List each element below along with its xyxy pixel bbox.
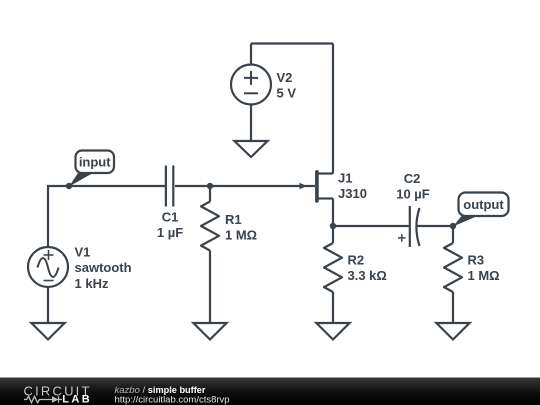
node at J1 source junction: [330, 223, 336, 229]
label C1: [162, 210, 179, 225]
capacitor C2 polarized: [398, 206, 420, 247]
label R1 value 1 Mohm: [225, 228, 257, 243]
net flag output: [453, 193, 509, 227]
ground below R2: [316, 323, 349, 340]
label J1 part J310: [338, 186, 367, 201]
label V2: [277, 70, 293, 85]
node output junction: [450, 223, 456, 229]
wire node to C2: [333, 225, 409, 227]
wire top horizontal to V2: [251, 42, 333, 44]
label C2: [404, 171, 421, 186]
svg-text:1 MΩ: 1 MΩ: [225, 228, 257, 243]
svg-text:C2: C2: [404, 171, 421, 186]
svg-text:LAB: LAB: [62, 394, 92, 405]
svg-text:J1: J1: [338, 171, 352, 186]
svg-text:1 MΩ: 1 MΩ: [468, 268, 500, 283]
resistor R3: [444, 226, 462, 323]
label R2: [348, 253, 365, 268]
svg-text:C1: C1: [162, 210, 179, 225]
transistor J1 JFET: [300, 172, 334, 201]
svg-text:3.3 kΩ: 3.3 kΩ: [348, 268, 387, 283]
resistor R2: [324, 226, 342, 323]
label V1 type sawtooth: [75, 260, 132, 275]
label C1 value 1 uF: [157, 225, 183, 240]
footer url: [115, 394, 230, 405]
label V1 value 1 kHz: [75, 276, 109, 291]
label R1: [225, 212, 242, 227]
label V1: [75, 245, 91, 260]
resistor R1: [201, 186, 219, 323]
label R2 value 3.3 kohm: [348, 268, 387, 283]
ground below R1: [193, 323, 226, 340]
label R3: [468, 253, 485, 268]
svg-text:R2: R2: [348, 253, 365, 268]
wire V2 top: [250, 44, 252, 65]
svg-text:input: input: [79, 155, 111, 170]
wire J1 source down to node: [332, 199, 334, 227]
capacitor C1: [166, 166, 173, 207]
svg-text:1 µF: 1 µF: [157, 225, 183, 240]
wire V1 top to C1 left: [48, 186, 165, 247]
wire C1 right to J1 gate: [175, 185, 315, 187]
node at R1 top junction: [207, 183, 213, 189]
label R3 value 1 Mohm: [468, 268, 500, 283]
svg-text:J310: J310: [338, 186, 367, 201]
svg-text:http://circuitlab.com/cts8rvp: http://circuitlab.com/cts8rvp: [115, 394, 230, 405]
wire C2 to output node: [418, 225, 454, 227]
footer bar: [0, 378, 540, 405]
voltage source V1: [28, 247, 68, 287]
node input junction: [66, 183, 72, 189]
wire J1 drain up: [332, 44, 334, 174]
svg-text:5 V: 5 V: [277, 85, 297, 100]
ground below V1: [31, 323, 64, 340]
wire V1 bottom to ground: [47, 287, 49, 323]
svg-text:1 kHz: 1 kHz: [75, 276, 109, 291]
footer title kazbo / simple buffer: [115, 385, 206, 396]
label V2 value 5 V: [277, 85, 297, 100]
logo CIRCUIT LAB: [24, 384, 93, 405]
ground below V2: [234, 141, 267, 157]
svg-text:V2: V2: [277, 70, 293, 85]
svg-text:R1: R1: [225, 212, 242, 227]
svg-text:sawtooth: sawtooth: [75, 260, 132, 275]
svg-text:V1: V1: [75, 245, 91, 260]
svg-text:10 µF: 10 µF: [396, 187, 430, 202]
label C2 value 10 uF: [396, 187, 430, 202]
net flag input: [69, 151, 114, 187]
svg-text:output: output: [463, 197, 504, 212]
label J1: [338, 171, 352, 186]
svg-text:R3: R3: [468, 253, 485, 268]
ground below R3: [436, 323, 469, 340]
voltage source V2: [231, 65, 271, 105]
wire V2 bottom to ground: [250, 105, 252, 142]
